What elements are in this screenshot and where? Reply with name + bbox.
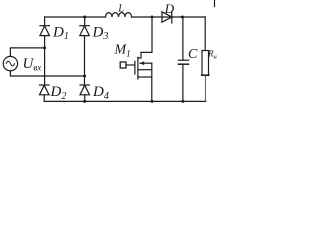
wire D1 column top	[44, 17, 46, 26]
body arrow	[140, 62, 152, 64]
node D3 top rail junction	[83, 16, 86, 19]
AC source U_vx circle	[3, 56, 17, 70]
svg-text:C: C	[188, 47, 198, 62]
wire MOSFET drain column	[138, 17, 152, 58]
node diode D cathode / C junction	[181, 16, 184, 19]
gate wire	[126, 64, 135, 66]
wire bottom rail	[44, 100, 206, 102]
node MOSFET source bottom rail junction	[151, 100, 154, 103]
node AC input 1 (junction dot)	[43, 46, 46, 49]
channel segments	[137, 57, 139, 79]
diode D3	[80, 26, 90, 85]
wire top rail right segment	[132, 16, 206, 18]
gate terminal square	[120, 62, 126, 68]
wire top rail left segment	[45, 16, 106, 18]
capacitor C	[178, 17, 188, 101]
node MOSFET drain / diode D anode junction	[151, 16, 154, 19]
wire source column	[151, 63, 153, 101]
node D4 bottom rail junction	[83, 100, 86, 103]
wire edge artifact top right	[214, 0, 216, 7]
transistor M1 (MOSFET)	[120, 57, 152, 101]
wire D3 column top	[84, 17, 86, 26]
node capacitor bottom rail junction	[181, 100, 184, 103]
AC source sine symbol	[6, 61, 14, 66]
svg-text:D: D	[164, 1, 175, 16]
diode D	[162, 12, 172, 24]
wire AC source bottom lead	[10, 71, 84, 76]
wire D1-D2 column	[44, 48, 46, 85]
source stub	[138, 76, 152, 78]
diode D1	[40, 26, 50, 48]
inductor L	[106, 13, 132, 17]
svg-text:L: L	[117, 3, 124, 14]
gate bar	[134, 61, 136, 74]
load resistor Rn	[202, 17, 209, 101]
wire AC source top lead	[10, 48, 44, 57]
node AC input 2 (junction dot)	[83, 75, 86, 78]
diode D4	[80, 85, 90, 101]
diode D2	[40, 85, 50, 101]
body stub	[138, 69, 152, 71]
